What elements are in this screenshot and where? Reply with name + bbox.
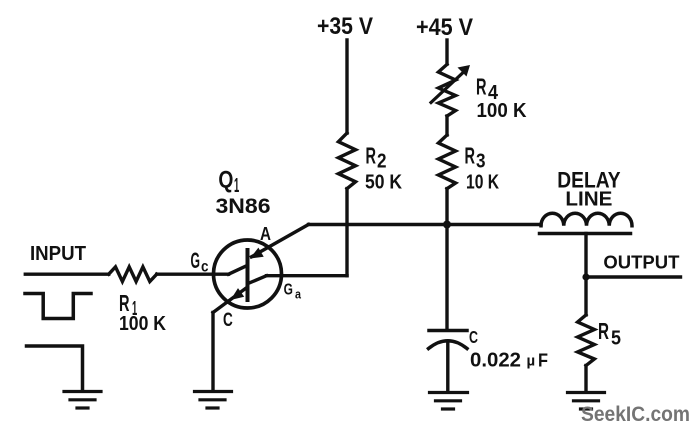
arrowhead anode A [250,248,264,259]
transistor Q1 bar [246,248,250,302]
svg-text:3N86: 3N86 [216,194,271,218]
wire output down to R5 [584,277,587,315]
ground R5 [568,393,605,410]
svg-text:G: G [284,281,293,298]
svg-text:R: R [366,143,377,169]
svg-text:50 K: 50 K [365,171,402,193]
wire cathode diagonal [213,288,246,312]
svg-text:C: C [223,310,233,331]
resistor R1 [109,267,157,282]
svg-text:INPUT: INPUT [30,242,86,265]
wire +45V lead down to R4 [445,40,448,64]
wire bus down to capacitor [445,225,448,330]
ground input [64,392,101,409]
wire R5 to ground [584,366,587,391]
pulse waveform symbol [25,294,91,319]
capacitor C bottom curved plate [429,341,468,349]
svg-text:100 K: 100 K [477,100,528,122]
inductor delay line coil [541,213,632,226]
svg-text:a: a [295,286,302,301]
wire horizontal bus [309,223,542,226]
ground under Q1 [195,392,232,409]
svg-text:OUTPUT: OUTPUT [603,252,680,273]
svg-text:R: R [598,318,609,344]
svg-text:100 K: 100 K [119,313,166,335]
wire R4 to R3 [445,116,448,135]
wire R1 to Gc [157,273,229,276]
svg-text:R: R [465,143,476,169]
svg-text:+35 V: +35 V [317,13,373,40]
svg-text:A: A [260,223,271,244]
arrowhead cathode [231,288,245,300]
wire Gc diagonal into bar [229,266,247,274]
svg-text:µ: µ [527,353,536,370]
svg-text:+45 V: +45 V [416,14,473,41]
resistor R5 [578,315,595,366]
wire input ground line [27,346,83,390]
resistor R4 variable [438,64,455,116]
arrow of R4 [431,74,462,103]
wire cathode down to ground [211,313,214,390]
svg-text:C: C [469,327,478,347]
wire Ga horizontal [267,274,348,277]
resistor R3 [438,135,455,189]
transistor Q1 circle [214,240,282,308]
svg-text:0.022: 0.022 [470,350,521,372]
wire R2 bottom down to Ga line [345,189,348,276]
delay line bottom line [540,232,631,236]
wire +35V lead down to R2 [345,40,348,133]
node junction dot bus/R3 [443,221,451,229]
svg-text:5: 5 [611,328,621,350]
capacitor C top plate [429,329,467,333]
wire anode diagonal to Q1 [252,225,309,257]
svg-text:G: G [191,248,201,273]
resistor R2 [338,133,355,189]
svg-text:R: R [476,74,487,100]
wire input lead [25,273,108,276]
svg-text:LINE: LINE [565,188,612,210]
wire R3 bottom to bus [445,189,448,225]
svg-text:F: F [538,351,548,371]
svg-text:10 K: 10 K [466,171,499,193]
node junction dot output [582,273,589,280]
svg-text:SeekIC.com: SeekIC.com [581,402,690,426]
wire output lead [586,275,681,278]
wire Ga diagonal into bar [249,276,267,284]
svg-text:Q: Q [218,167,233,194]
wire delay line tap down [584,234,587,278]
svg-text:c: c [201,259,209,276]
wire capacitor to ground [446,344,449,391]
svg-text:3: 3 [476,151,486,173]
svg-text:2: 2 [377,151,387,173]
ground capacitor [430,393,468,410]
